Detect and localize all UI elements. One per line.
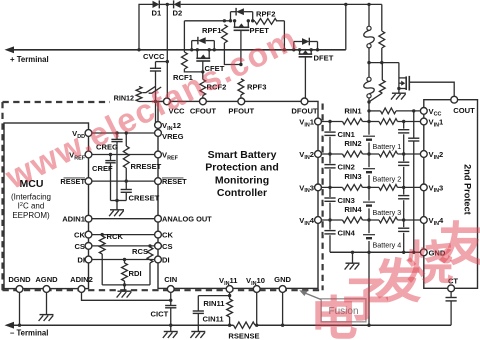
- svg-text:Battery 4: Battery 4: [373, 241, 402, 250]
- pin controller ANALOG OUT: [155, 215, 162, 222]
- pin controller GND: [279, 286, 286, 293]
- pin controller VIN12: [155, 122, 162, 129]
- svg-text:CK: CK: [74, 231, 85, 240]
- svg-text:+ Terminal: + Terminal: [10, 55, 49, 64]
- svg-text:CICT: CICT: [151, 310, 169, 319]
- pin controller PFOUT: [238, 98, 245, 105]
- svg-text:– Terminal: – Terminal: [10, 329, 48, 338]
- transistor CFET: [196, 50, 198, 58]
- pin protect VIN2: [420, 151, 427, 158]
- diode D2: [174, 1, 181, 8]
- transistor PFET: [234, 21, 236, 27]
- capacitor CIN1: [324, 131, 337, 137]
- svg-text:VREG: VREG: [162, 132, 184, 141]
- node VIN10 bus: [255, 324, 258, 327]
- pin MCU ADIN1: [85, 215, 92, 222]
- svg-text:RIN2: RIN2: [344, 139, 361, 148]
- pin controller DFOUT: [301, 98, 308, 105]
- svg-text:RPF1: RPF1: [202, 26, 222, 35]
- capacitor VCC bypass: [413, 111, 415, 138]
- capacitor CICT: [165, 305, 176, 307]
- svg-text:D1: D1: [152, 9, 162, 18]
- node battery row 3: [367, 186, 370, 189]
- node PFET gate node: [239, 63, 242, 66]
- node fuse top: [367, 3, 370, 6]
- svg-text:ANALOG OUT: ANALOG OUT: [162, 215, 212, 224]
- svg-text:DFOUT: DFOUT: [291, 107, 318, 116]
- transistor CFET body diode: [191, 41, 193, 50]
- node right cap row 2: [402, 152, 405, 155]
- wire battery bottom to -terminal: [368, 252, 370, 325]
- wire DGND down: [19, 292, 21, 325]
- node battery bottom gnd stub: [351, 251, 354, 254]
- node CIN4 junction: [328, 218, 331, 221]
- node battery bottom bus: [367, 324, 370, 327]
- resistor balance row 4: [379, 217, 398, 223]
- resistor fuse heater upper: [381, 4, 383, 31]
- wire CIN11 branch: [198, 295, 229, 297]
- pin protect VCC: [420, 108, 427, 115]
- diode D1: [153, 1, 160, 8]
- pin controller CIN: [167, 286, 174, 293]
- pin controller VIN1: [315, 118, 322, 125]
- capacitor CREG: [116, 133, 118, 139]
- node right cap row 3: [402, 186, 405, 189]
- svg-text:RESET: RESET: [162, 177, 187, 186]
- svg-text:ADIN1: ADIN1: [62, 215, 86, 224]
- svg-text:Protection and: Protection and: [205, 162, 279, 174]
- svg-text:Battery 3: Battery 3: [373, 208, 402, 217]
- resistor RIN12 slashes: [143, 86, 156, 92]
- node DGND bus: [18, 324, 21, 327]
- pin controller RESET: [155, 178, 162, 185]
- battery Battery 2: [363, 167, 376, 175]
- resistor RIN1: [343, 119, 363, 125]
- svg-text:CIN4: CIN4: [338, 228, 356, 237]
- wire RPF1 bottom to PFET gate node: [224, 43, 241, 65]
- resistor balance row 2: [379, 151, 398, 157]
- transistor PFET body diode: [230, 12, 232, 21]
- transistor heater FET: [398, 63, 400, 93]
- resistor RIN2: [343, 151, 363, 157]
- resistor RCK: [99, 236, 105, 254]
- controller box: [158, 101, 318, 288]
- MCU box: [4, 123, 89, 289]
- thermal fuse upper element: [368, 4, 370, 26]
- ground CICT: [170, 325, 172, 331]
- wire protect GND row: [330, 251, 420, 253]
- node CREG tap: [115, 131, 118, 134]
- pin controller VREG: [155, 130, 162, 137]
- transistor DFET: [299, 50, 301, 54]
- wire CS row: [92, 245, 155, 247]
- svg-text:CK: CK: [162, 231, 173, 240]
- capacitor CIN4: [324, 230, 337, 236]
- pin MCU DI: [85, 256, 92, 263]
- wire battery column: [368, 122, 370, 253]
- node VCC/VIN12 junction: [154, 100, 157, 103]
- fusion arrow: [304, 293, 321, 300]
- pin controller VIN2: [315, 151, 322, 158]
- resistor RIN3: [343, 185, 363, 191]
- svg-text:RSENSE: RSENSE: [228, 332, 259, 340]
- wire D1-D2 junction down to VCC: [166, 4, 168, 98]
- svg-text:CIN: CIN: [164, 275, 177, 284]
- battery Battery 4: [363, 233, 376, 241]
- svg-text:RESET: RESET: [60, 177, 85, 186]
- node RCK tap: [101, 233, 104, 236]
- pin MCU VDD: [85, 130, 92, 137]
- wire fuse mid node: [369, 62, 399, 64]
- pin controller CK: [155, 231, 162, 238]
- resistor RRESET: [125, 133, 127, 146]
- node right cap row 4: [402, 218, 405, 221]
- node VCC cap top: [412, 109, 415, 112]
- svg-text:Monitoring: Monitoring: [215, 174, 269, 186]
- svg-text:RRESET: RRESET: [131, 162, 162, 171]
- node CIN1 junction: [328, 120, 331, 123]
- resistor balance row 1: [379, 119, 398, 125]
- pin MCU VREF: [85, 151, 92, 158]
- node fuse mid heater: [380, 61, 383, 64]
- svg-text:2nd Protect: 2nd Protect: [463, 164, 473, 215]
- pin controller CS: [155, 243, 162, 250]
- ground CIN11: [191, 331, 205, 333]
- svg-text:DI: DI: [162, 256, 170, 265]
- wire VIN3 row: [321, 186, 342, 188]
- svg-text:COUT: COUT: [453, 106, 475, 115]
- node CIN3 junction: [328, 186, 331, 189]
- resistor RPF3: [238, 79, 244, 95]
- node CREF tap: [109, 153, 112, 156]
- pin MCU DGND: [16, 286, 23, 293]
- svg-text:CS: CS: [74, 242, 85, 251]
- ground AGND: [40, 314, 54, 316]
- svg-text:RDI: RDI: [129, 269, 142, 278]
- node RIN11 bus: [228, 324, 231, 327]
- wire ADIN2 to CIN: [82, 292, 171, 300]
- svg-text:CS: CS: [162, 242, 173, 251]
- pin controller DI: [155, 256, 162, 263]
- resistor RIN12: [136, 87, 142, 102]
- resistor RIN11: [227, 299, 233, 317]
- wire AGND down: [46, 292, 48, 314]
- wire VIN12 stub: [154, 124, 157, 126]
- pack boundary dashed bottom edge: [3, 289, 323, 291]
- resistor RCF1: [183, 21, 185, 52]
- node CVCC tap on VCC wire: [166, 60, 169, 63]
- pin protect VIN3: [420, 184, 427, 191]
- svg-text:Battery 2: Battery 2: [373, 175, 402, 184]
- wire PFET gate-drive line: [184, 20, 230, 22]
- svg-text:PFOUT: PFOUT: [228, 107, 254, 116]
- resistor fuse heater lower: [381, 63, 383, 80]
- svg-text:RCK: RCK: [107, 232, 124, 241]
- battery Battery 3: [363, 201, 376, 209]
- svg-text:DFET: DFET: [314, 54, 334, 63]
- node RDI tap: [123, 258, 126, 261]
- wire VDD-VREG: [92, 132, 155, 134]
- pin protect GND: [420, 249, 427, 256]
- pin protect VIN1: [420, 118, 427, 125]
- node CICT bus: [169, 324, 172, 327]
- pin controller CFOUT: [200, 98, 207, 105]
- - terminal bus: [10, 324, 234, 326]
- battery Battery 1: [363, 135, 376, 143]
- node RCS tap: [148, 244, 151, 247]
- capacitor CIN3: [324, 197, 337, 203]
- svg-text:RPF3: RPF3: [247, 83, 266, 92]
- resistor RPF1: [222, 25, 228, 43]
- pin controller VIN4: [315, 217, 322, 224]
- fusion box: [321, 299, 366, 322]
- capacitor CRESET: [125, 181, 127, 189]
- wire VIN1 row: [321, 121, 342, 123]
- node riser top: [344, 3, 347, 6]
- wire VIN4 row: [321, 219, 342, 221]
- resistor balance row 3: [379, 185, 398, 191]
- node RDI bottom: [123, 283, 126, 286]
- resistor RPF2: [255, 19, 277, 25]
- pin MCU CS: [85, 243, 92, 250]
- svg-text:GND: GND: [274, 275, 291, 284]
- svg-text:RIN1: RIN1: [344, 106, 362, 115]
- svg-text:D2: D2: [173, 9, 183, 18]
- svg-text:ADIN2: ADIN2: [70, 275, 93, 284]
- wire RPF3 to PFOUT: [240, 95, 242, 98]
- node battery bottom col: [367, 251, 370, 254]
- pin protect CT: [448, 285, 455, 292]
- wire riser to top bus: [345, 4, 347, 49]
- capacitor CVCC: [155, 62, 157, 69]
- node battery row 2: [367, 152, 370, 155]
- ground battery stack: [352, 252, 354, 263]
- ground spi resistors: [124, 285, 126, 291]
- pin MCU RESET: [85, 178, 92, 185]
- resistor RCS: [147, 247, 153, 263]
- capacitor balance 4: [397, 227, 410, 233]
- pack boundary dashed top edge: [3, 101, 111, 103]
- node RPF1 top: [223, 19, 226, 22]
- svg-text:CIN2: CIN2: [338, 162, 355, 171]
- node right cap row 1: [402, 120, 405, 123]
- ground heater FET: [392, 92, 406, 94]
- svg-text:Battery 1: Battery 1: [373, 142, 402, 151]
- node fuse mid left: [367, 61, 370, 64]
- svg-text:RIN3: RIN3: [344, 172, 361, 181]
- capacitor CREF: [110, 155, 112, 161]
- wire CK row: [92, 234, 155, 236]
- node battery row 4: [367, 218, 370, 221]
- wire VREF row: [92, 154, 155, 156]
- wire spi ground rail: [102, 284, 150, 286]
- pin protect VIN4: [420, 217, 427, 224]
- wire RIN12 to VCC pin: [139, 101, 164, 103]
- wire RCF1 to CFET gate: [184, 69, 202, 72]
- svg-text:DGND: DGND: [8, 275, 31, 284]
- wire battery bottom row: [330, 251, 420, 253]
- pack boundary dashed left edge: [1, 102, 3, 290]
- pin controller VIN10: [253, 286, 260, 293]
- wire VIN11 down: [229, 292, 231, 299]
- svg-text:Controller: Controller: [217, 187, 267, 199]
- node CFET gate node: [201, 70, 204, 73]
- watermark chinese: [315, 294, 356, 338]
- resistor VCC row: [381, 108, 397, 114]
- capacitor CIN11: [193, 310, 204, 312]
- node RRESET top: [125, 131, 128, 134]
- svg-text:CIN3: CIN3: [338, 196, 355, 205]
- ground regulator caps: [110, 209, 124, 211]
- svg-text:CRESET: CRESET: [129, 194, 160, 203]
- resistor RIN4: [343, 217, 363, 223]
- pin MCU ADIN2: [78, 286, 85, 293]
- svg-text:RIN11: RIN11: [203, 299, 225, 308]
- node CIN2 junction: [328, 152, 331, 155]
- wire VIN10 down: [256, 292, 258, 325]
- wire GND down: [282, 292, 284, 325]
- node GND bus: [281, 324, 284, 327]
- pin MCU AGND: [43, 286, 50, 293]
- svg-text:CIN11: CIN11: [203, 315, 225, 324]
- svg-text:CVCC: CVCC: [143, 52, 165, 61]
- wire right cap column: [403, 122, 405, 253]
- svg-text:Smart Battery: Smart Battery: [208, 149, 277, 161]
- node battery bottom rcap: [402, 251, 405, 254]
- wire ADIN1 row: [92, 218, 155, 220]
- pin MCU CK: [85, 231, 92, 238]
- wire VCC row: [369, 110, 381, 112]
- svg-text:RCS: RCS: [132, 247, 148, 256]
- wire top bus: [139, 4, 153, 49]
- wire VIN2 row: [321, 153, 342, 155]
- wire RCF2 to CFOUT: [202, 96, 204, 98]
- node reg ground rail: [115, 199, 118, 202]
- node D1-D2 cathode junction: [166, 3, 169, 6]
- node CRESET tap: [125, 179, 128, 182]
- pack boundary dashed right edge: [322, 104, 324, 291]
- svg-text:CIN1: CIN1: [338, 130, 356, 139]
- resistor RSENSE: [234, 322, 256, 328]
- node fuse bottom junction: [367, 100, 370, 103]
- capacitor balance 2: [397, 161, 410, 167]
- capacitor balance 1: [397, 129, 410, 135]
- 2nd protect box: [424, 100, 478, 289]
- node ADIN2-CIN junction: [169, 299, 172, 302]
- wire DI row: [92, 259, 155, 261]
- node battery row 1: [367, 120, 370, 123]
- + terminal wire: [10, 49, 346, 51]
- wire RESET row: [92, 180, 155, 182]
- pin controller VREF: [155, 151, 162, 158]
- svg-text:AGND: AGND: [35, 275, 58, 284]
- capacitor CT: [450, 292, 452, 298]
- pin controller VIN3: [315, 184, 322, 191]
- node vcc row junction: [367, 109, 370, 112]
- node RIN12 top junction: [137, 48, 140, 51]
- svg-text:EEPROM): EEPROM): [12, 211, 50, 220]
- transistor DFET body diode: [293, 42, 295, 50]
- thermal fuse lower element: [368, 63, 370, 78]
- pin protect COUT: [451, 96, 458, 103]
- svg-text:CREF: CREF: [92, 164, 113, 173]
- capacitor CIN2: [324, 164, 337, 170]
- pin controller VCC: [164, 98, 171, 105]
- resistor RCF2: [200, 79, 206, 95]
- svg-text:RIN4: RIN4: [344, 205, 362, 214]
- node VCC cap bottom: [412, 251, 415, 254]
- node RIN11 CIN11 junction: [228, 294, 231, 297]
- wire CIN down: [170, 292, 172, 305]
- svg-text:DI: DI: [77, 256, 85, 265]
- svg-text:RPF2: RPF2: [256, 10, 275, 19]
- resistor RDI: [124, 260, 126, 264]
- wire reg ground rail: [111, 200, 127, 202]
- node RPF2 to terminal row: [283, 48, 286, 51]
- capacitor balance 3: [397, 195, 410, 201]
- wire heater FET gate to COUT: [409, 82, 454, 96]
- wire CIN cap column: [329, 122, 331, 253]
- pin controller VIN11: [226, 286, 233, 293]
